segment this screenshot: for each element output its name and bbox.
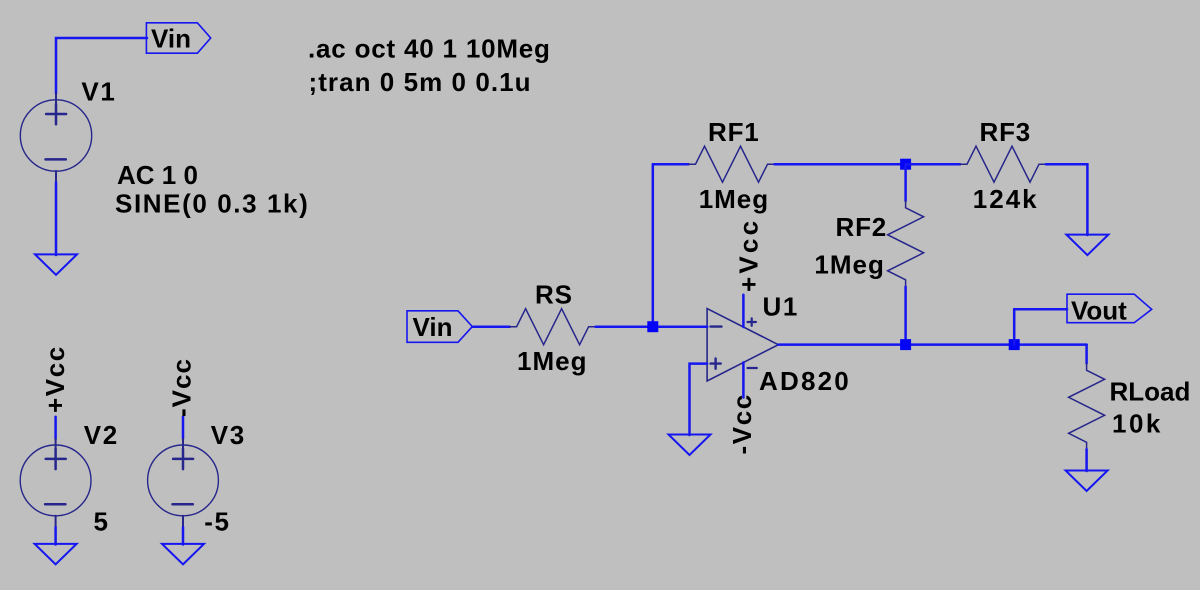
svg-text:AD820: AD820 bbox=[759, 366, 851, 396]
node junction (RF1/RF2/RF3) bbox=[900, 159, 911, 170]
svg-text:1Meg: 1Meg bbox=[814, 250, 884, 280]
V3 plus bbox=[173, 449, 193, 469]
svg-text:;tran 0 5m 0 0.1u: ;tran 0 5m 0 0.1u bbox=[309, 67, 532, 97]
resistor RF1 bbox=[689, 146, 775, 182]
svg-text:RF2: RF2 bbox=[836, 212, 888, 242]
V3 bottom pin stub bbox=[182, 516, 184, 527]
ground (RF3) bbox=[1066, 235, 1108, 256]
ground (V1) bbox=[35, 254, 77, 275]
wire RS to op-amp input bbox=[596, 325, 708, 328]
V2 bottom pin stub bbox=[55, 516, 57, 527]
wire V1 top to Vin flag bbox=[56, 38, 147, 93]
wire RF2 top bbox=[904, 164, 907, 201]
ground (RLoad) bbox=[1066, 471, 1108, 492]
svg-text:V2: V2 bbox=[84, 420, 119, 450]
svg-text:.ac oct 40 1 10Meg: .ac oct 40 1 10Meg bbox=[308, 34, 551, 64]
wire RLoad bottom bbox=[1085, 449, 1088, 471]
wire V2 top stub bbox=[54, 417, 57, 439]
svg-text:-5: -5 bbox=[204, 507, 230, 537]
node junction (RS / feedback / op-amp) bbox=[647, 321, 658, 332]
flag Vout bbox=[1067, 294, 1152, 323]
svg-text:Vin: Vin bbox=[413, 312, 453, 342]
flag Vin (input port) bbox=[407, 311, 472, 343]
wire V3 top stub bbox=[182, 417, 185, 439]
svg-text:V1: V1 bbox=[81, 76, 116, 106]
ground (V2) bbox=[35, 544, 77, 565]
svg-text:Vout: Vout bbox=[1071, 296, 1127, 326]
wire V1 bottom to ground bbox=[55, 182, 58, 255]
V1 minus bbox=[46, 158, 66, 161]
V2 plus bbox=[46, 449, 66, 469]
svg-text:RF1: RF1 bbox=[708, 117, 760, 147]
svg-text:SINE(0 0.3 1k): SINE(0 0.3 1k) bbox=[115, 188, 309, 218]
V3 minus bbox=[173, 503, 193, 506]
resistor RLoad bbox=[1069, 363, 1105, 449]
op-amp power pin bottom wire bbox=[742, 363, 745, 398]
wire RLoad top bbox=[1085, 345, 1088, 364]
svg-text:RS: RS bbox=[535, 279, 573, 309]
wire RF3 to ground corner bbox=[1046, 164, 1088, 235]
svg-text:-Vcc: -Vcc bbox=[167, 358, 197, 417]
op-amp power plus mark bbox=[748, 318, 756, 326]
op-amp minus (inverting) bbox=[711, 325, 722, 327]
wire feedback vertical bbox=[652, 164, 655, 327]
ground (V3) bbox=[162, 544, 204, 565]
svg-text:V3: V3 bbox=[211, 420, 246, 450]
op-amp U1 triangle bbox=[707, 309, 778, 382]
flag Vin (top) bbox=[146, 23, 210, 53]
op-amp power minus mark bbox=[748, 367, 757, 369]
op-amp plus (non-inverting) bbox=[711, 359, 721, 369]
svg-text:124k: 124k bbox=[973, 184, 1039, 214]
wire RF2 bottom bbox=[904, 287, 907, 345]
wire RF3 lead left bbox=[906, 163, 961, 166]
resistor RF3 bbox=[960, 146, 1046, 182]
svg-text:1Meg: 1Meg bbox=[517, 346, 587, 376]
wire non-inverting input to ground bbox=[690, 364, 708, 435]
svg-text:-Vcc: -Vcc bbox=[727, 393, 757, 454]
V2 minus bbox=[45, 503, 65, 506]
voltage source V2 circle bbox=[20, 445, 91, 516]
wire V2 bottom bbox=[54, 527, 57, 544]
voltage source V3 circle bbox=[148, 445, 219, 516]
svg-text:+Vcc: +Vcc bbox=[734, 218, 764, 292]
V1 bottom pin stub bbox=[55, 171, 57, 182]
resistor RF2 bbox=[888, 201, 924, 287]
resistor RS bbox=[510, 309, 596, 345]
voltage source V1 circle bbox=[20, 100, 91, 171]
op-amp power pin top wire bbox=[742, 295, 745, 327]
svg-text:RF3: RF3 bbox=[980, 117, 1032, 147]
wire feedback top left bbox=[653, 163, 689, 166]
wire Vout tap bbox=[1014, 309, 1067, 344]
svg-text:1Meg: 1Meg bbox=[699, 184, 769, 214]
svg-text:RLoad: RLoad bbox=[1110, 377, 1191, 407]
V2 top pin stub bbox=[55, 439, 57, 449]
svg-text:+Vcc: +Vcc bbox=[40, 345, 70, 413]
node junction (Vout tap) bbox=[1009, 339, 1020, 350]
svg-text:AC 1 0: AC 1 0 bbox=[117, 160, 198, 190]
V1 top pin stub bbox=[55, 93, 57, 104]
wire RF1 to node bbox=[774, 163, 905, 166]
V3 top pin stub bbox=[182, 439, 184, 449]
svg-text:10k: 10k bbox=[1112, 409, 1163, 439]
wire Vin port to RS bbox=[472, 325, 510, 328]
op-amp inverting input stub bbox=[700, 325, 707, 328]
wire V3 bottom bbox=[182, 527, 185, 544]
ground (op-amp + input) bbox=[669, 435, 711, 456]
node junction (RF2 bottom / output) bbox=[900, 339, 911, 350]
svg-text:Vin: Vin bbox=[151, 24, 191, 54]
svg-text:U1: U1 bbox=[763, 291, 799, 321]
svg-text:5: 5 bbox=[94, 507, 110, 537]
wire op-amp output bbox=[778, 343, 1086, 346]
V1 plus bbox=[46, 104, 66, 124]
